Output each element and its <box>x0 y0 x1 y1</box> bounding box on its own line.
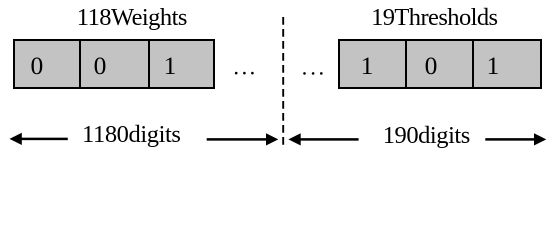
weight bit 0 <box>31 51 44 81</box>
weight bit 1 <box>164 51 177 81</box>
ellipsis left of divider <box>235 72 254 75</box>
weights cell divider 2 <box>148 39 150 89</box>
arrow east (1180digits right) <box>207 133 279 145</box>
arrow east (190digits right) <box>485 133 546 145</box>
arrow west (1180digits left) <box>10 133 68 145</box>
dashed divider line <box>282 17 284 148</box>
label 19Thresholds <box>371 4 497 32</box>
arrow west (190digits left) <box>288 133 358 145</box>
label 1180digits <box>82 121 181 149</box>
threshold bit 0 <box>425 51 438 81</box>
threshold bit 1 <box>487 51 500 81</box>
label 118Weights <box>77 4 187 32</box>
thresholds cell divider 1 <box>405 39 407 89</box>
weight bit 0 <box>94 51 107 81</box>
thresholds register box <box>338 39 542 89</box>
label 190digits <box>383 122 470 150</box>
thresholds cell divider 2 <box>472 39 474 89</box>
weights cell divider 1 <box>79 39 81 89</box>
threshold bit 1 <box>361 51 374 81</box>
ellipsis right of divider <box>303 72 322 75</box>
weights register box <box>13 39 215 89</box>
vector overlay: dots, dashed divider, arrows <box>0 0 550 157</box>
